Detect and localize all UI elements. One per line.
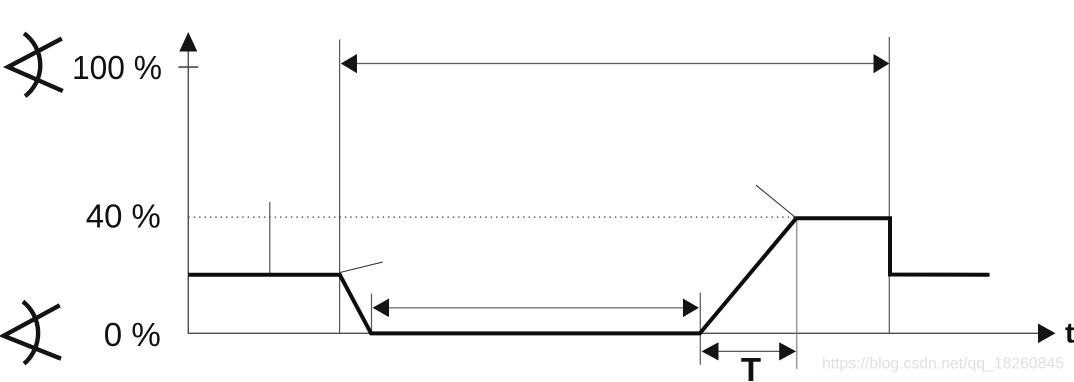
svg-text:100 %: 100 % <box>72 49 162 86</box>
svg-text:40 %: 40 % <box>86 198 161 235</box>
callout line at ramp-down corner <box>340 262 383 273</box>
svg-text:t: t <box>1065 317 1074 349</box>
x-axis arrowhead <box>1038 324 1056 344</box>
waveform <box>188 218 989 333</box>
middle dimension arrow line <box>376 307 695 309</box>
short vertical marker line <box>269 202 271 274</box>
callout line at ramp-up corner <box>756 185 796 218</box>
vertical guide line at ramp-up top corner <box>796 218 798 369</box>
tick at ramp-up bottom corner <box>699 293 701 365</box>
y-axis line <box>187 40 189 334</box>
svg-text:T: T <box>741 351 761 382</box>
svg-text:https://blog.csdn.net/qq_18260: https://blog.csdn.net/qq_18260845 <box>822 356 1064 373</box>
tick at ramp-down bottom corner <box>371 294 373 334</box>
y-axis arrowhead <box>179 32 197 52</box>
top dimension right arrowhead <box>874 54 890 73</box>
vertical guide line at waveform end drop <box>888 37 890 333</box>
T dimension arrow line <box>705 350 793 352</box>
vertical guide line at ramp-down start <box>339 40 341 334</box>
100% tick <box>178 66 198 68</box>
middle dimension left arrowhead <box>373 299 390 318</box>
x-axis line <box>188 332 1040 334</box>
middle dimension right arrowhead <box>683 299 699 318</box>
40% dotted level line <box>188 216 796 218</box>
T dimension left arrowhead <box>702 342 719 360</box>
brightness icon bottom (0%) <box>4 302 62 364</box>
top dimension left arrowhead <box>341 54 357 73</box>
T dimension right arrowhead <box>779 342 796 360</box>
top dimension arrow line <box>352 63 879 65</box>
svg-text:0 %: 0 % <box>104 316 161 353</box>
brightness icon top (100%) <box>8 33 63 96</box>
